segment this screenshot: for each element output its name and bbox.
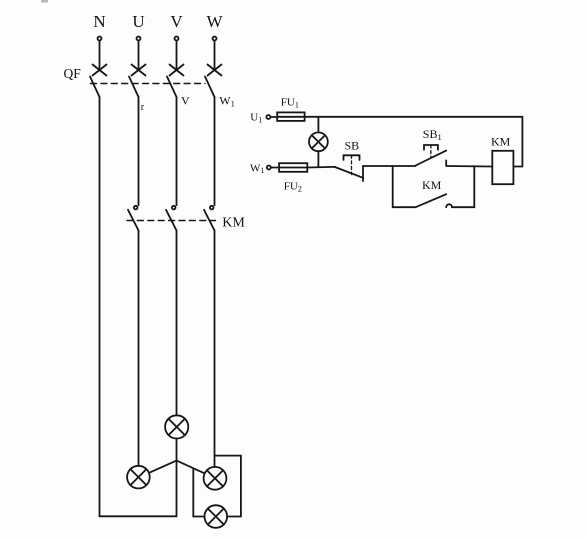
lamp EL3 bbox=[204, 467, 227, 490]
wire star node down bbox=[176, 461, 178, 517]
coil KM bbox=[492, 151, 513, 184]
wire junction down to KM contact branch bbox=[392, 166, 394, 207]
svg-text:U1: U1 bbox=[250, 112, 262, 125]
contactor KM pole V bbox=[166, 206, 177, 231]
pushbutton SB1 blade bbox=[416, 151, 447, 166]
contact KM aux blade bbox=[416, 194, 447, 207]
svg-text:N: N bbox=[93, 12, 105, 31]
svg-text:r: r bbox=[141, 102, 145, 113]
svg-text:W1: W1 bbox=[219, 94, 235, 109]
wire tap to EL4 left bbox=[193, 468, 204, 516]
label SB bbox=[345, 139, 360, 153]
KM linkage dashed bbox=[127, 220, 216, 222]
svg-text:KM: KM bbox=[222, 216, 245, 231]
label V bbox=[181, 94, 190, 108]
wire FU2 to SB bbox=[307, 166, 334, 169]
wire lamp HL stub top bbox=[317, 117, 319, 133]
svg-text:FU1: FU1 bbox=[281, 97, 299, 110]
wire U1 to FU1 bbox=[270, 116, 277, 118]
contact KM aux bottom wire right bbox=[452, 166, 474, 207]
wire W1 to FU2 bbox=[271, 167, 279, 169]
lamp EL2 bbox=[127, 466, 150, 489]
contact KM aux fixed semicircle bbox=[446, 204, 452, 207]
wire V KM to lamp EL1 bbox=[176, 231, 178, 416]
terminal U1 control bbox=[266, 115, 270, 119]
lamp EL4 bbox=[205, 505, 228, 528]
label QF bbox=[64, 66, 82, 81]
wire SB to junction bbox=[363, 165, 416, 167]
wire neutral return bottom bbox=[100, 515, 177, 517]
terminal U bbox=[137, 37, 141, 41]
terminal W bbox=[213, 37, 217, 41]
wire U KM to lamp EL2 bbox=[138, 231, 140, 466]
svg-text:SB: SB bbox=[345, 139, 360, 153]
fuse FU2 bbox=[279, 163, 307, 172]
wire star node to EL2 bbox=[150, 461, 177, 473]
smudge top bbox=[41, 0, 48, 3]
lamp HL bbox=[309, 132, 328, 151]
wire N lead bbox=[99, 41, 101, 70]
breaker QF pole V bbox=[167, 65, 184, 98]
svg-text:V: V bbox=[181, 94, 190, 108]
wire U phase QF to KM bbox=[138, 97, 140, 205]
svg-text:KM: KM bbox=[422, 178, 442, 192]
wire W lead bbox=[214, 41, 216, 70]
node N label bbox=[93, 12, 105, 31]
breaker QF pole W bbox=[205, 65, 222, 98]
pushbutton SB blade bbox=[335, 166, 363, 181]
wire star node to EL3 bbox=[177, 461, 205, 474]
pushbutton SB cap bbox=[344, 155, 360, 174]
svg-text:W1: W1 bbox=[250, 162, 264, 175]
label W1 bbox=[219, 94, 235, 109]
wire U lead bbox=[138, 41, 140, 70]
contactor KM pole U bbox=[128, 206, 139, 231]
contact KM aux bottom wire left bbox=[393, 206, 416, 208]
svg-text:FU2: FU2 bbox=[284, 181, 302, 194]
terminal V bbox=[175, 37, 179, 41]
wire W phase QF to KM bbox=[214, 97, 216, 205]
terminal W1 control bbox=[267, 166, 271, 170]
label U1 small bbox=[141, 102, 145, 113]
contactor KM pole W bbox=[204, 206, 215, 231]
svg-text:V: V bbox=[170, 12, 183, 31]
node U label bbox=[132, 12, 144, 31]
terminal N bbox=[98, 37, 102, 41]
svg-text:QF: QF bbox=[64, 66, 82, 81]
label U1 control bbox=[250, 112, 262, 125]
node W label bbox=[206, 12, 223, 31]
svg-text:SB1: SB1 bbox=[423, 127, 442, 142]
wire EL1 to star node bbox=[176, 439, 178, 461]
label KM aux bbox=[422, 178, 442, 192]
wire W branch to EL4 right bbox=[215, 456, 241, 517]
breaker QF pole U bbox=[129, 65, 146, 98]
node V label bbox=[170, 12, 183, 31]
wire N bus bbox=[99, 97, 101, 516]
svg-text:U: U bbox=[132, 12, 144, 31]
label FU2 bbox=[284, 181, 302, 194]
label KM main bbox=[222, 216, 245, 231]
wire lamp HL stub bottom bbox=[317, 151, 319, 167]
label FU1 bbox=[281, 97, 299, 110]
svg-text:KM: KM bbox=[491, 135, 511, 149]
wire W KM to lamp EL3 bbox=[214, 231, 216, 467]
wire V lead bbox=[176, 41, 178, 70]
QF linkage dashed bbox=[91, 83, 206, 85]
wire V phase QF to KM bbox=[176, 97, 178, 205]
fuse FU1 bbox=[277, 112, 304, 121]
wire top rail bbox=[305, 117, 523, 167]
label W1 control bbox=[250, 162, 264, 175]
svg-text:W: W bbox=[206, 12, 223, 31]
label SB1 bbox=[423, 127, 442, 142]
label KM coil bbox=[491, 135, 511, 149]
breaker QF pole N bbox=[90, 65, 107, 98]
pushbutton SB1 cap bbox=[424, 145, 438, 158]
wire SB1 to coil bbox=[446, 165, 492, 168]
lamp EL1 bbox=[165, 415, 188, 438]
